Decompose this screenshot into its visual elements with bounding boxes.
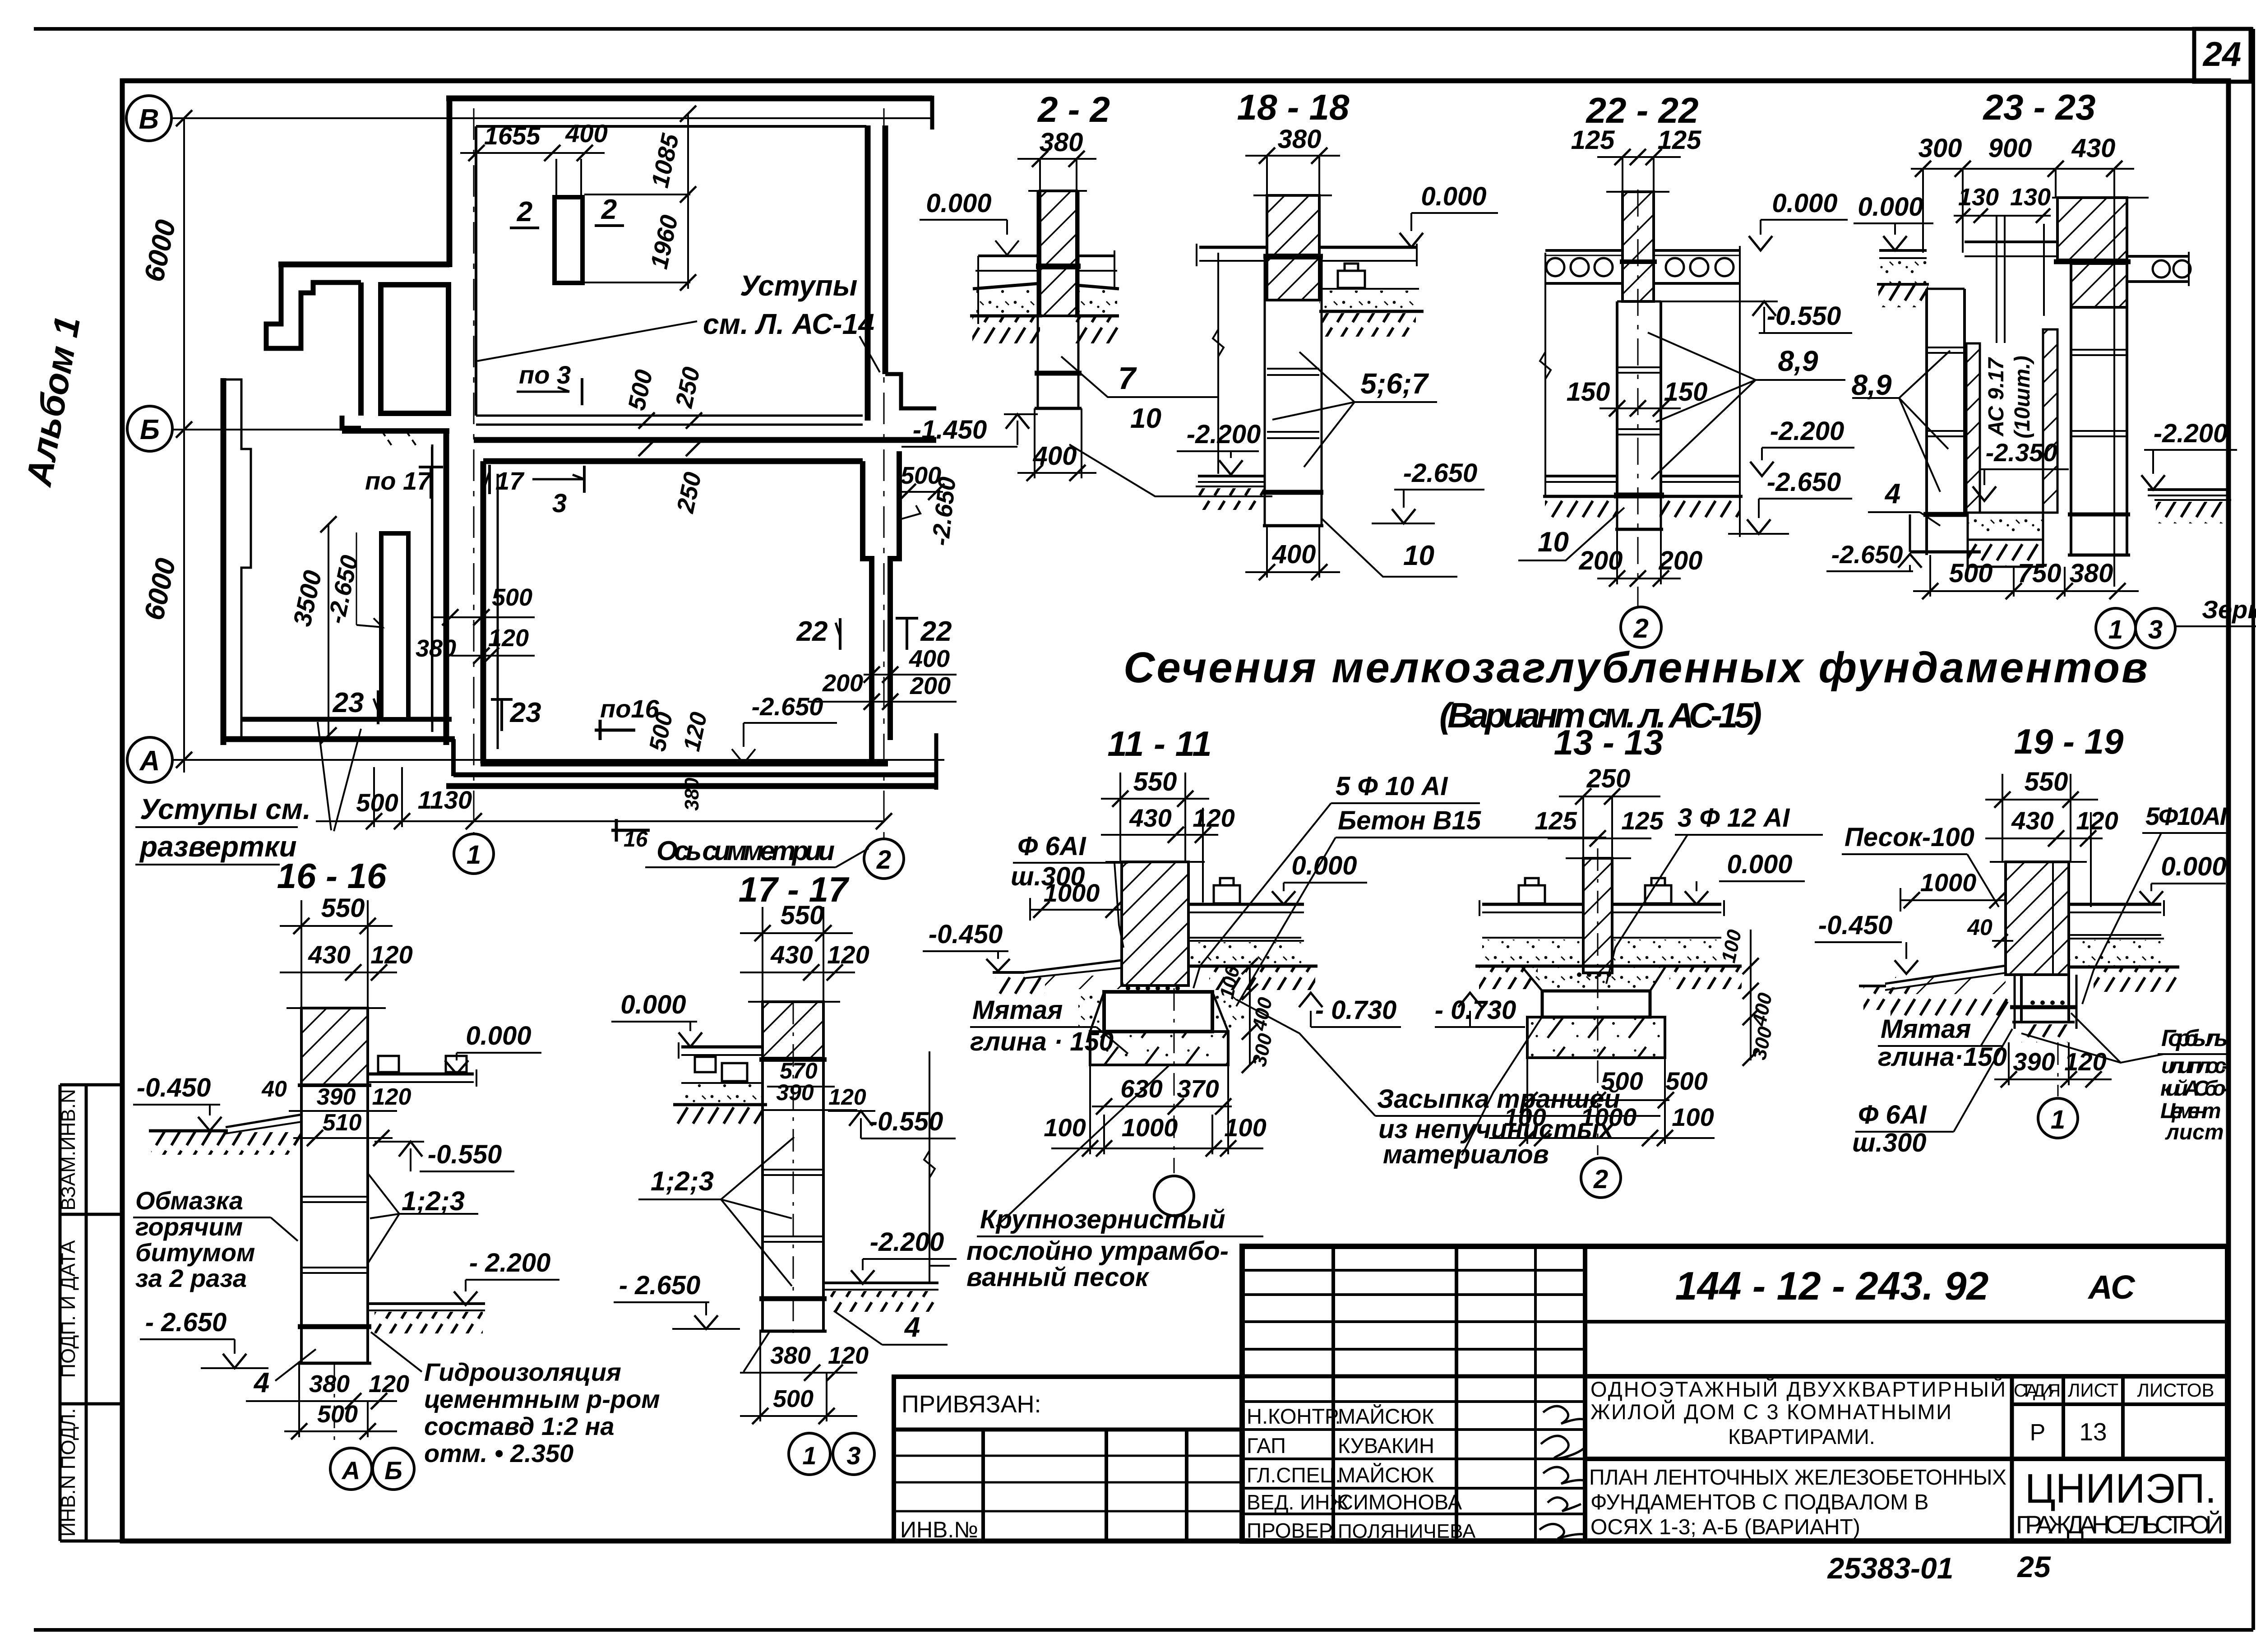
wall hatched bbox=[2006, 862, 2069, 975]
svg-text:400: 400 bbox=[565, 119, 607, 148]
svg-text:500: 500 bbox=[1601, 1067, 1643, 1095]
svg-text:380: 380 bbox=[681, 777, 703, 811]
dim ticks on left dim line bbox=[176, 110, 192, 126]
svg-text:Альбом 1: Альбом 1 bbox=[18, 313, 88, 490]
svg-text:или плос-: или плос- bbox=[2161, 1054, 2229, 1078]
sand pad bbox=[1090, 1032, 1228, 1065]
svg-text:материалов: материалов bbox=[1383, 1140, 1549, 1169]
ground line bbox=[970, 315, 1042, 318]
plan left wing bottom wall bbox=[242, 717, 452, 722]
svg-text:380: 380 bbox=[770, 1342, 811, 1369]
axis А horizontal line bbox=[172, 759, 944, 761]
svg-text:2: 2 bbox=[517, 196, 532, 227]
svg-text:100: 100 bbox=[1044, 1113, 1086, 1142]
title block label row lines bbox=[1242, 1400, 1585, 1403]
svg-text:7: 7 bbox=[1118, 361, 1137, 396]
svg-text:250: 250 bbox=[671, 470, 707, 516]
svg-text:250: 250 bbox=[1586, 764, 1631, 793]
svg-text:- 2.650: - 2.650 bbox=[619, 1271, 701, 1300]
svg-text:19 - 19: 19 - 19 bbox=[2014, 722, 2124, 761]
svg-text:400: 400 bbox=[909, 645, 950, 672]
right floor slab bbox=[1077, 255, 1114, 257]
svg-text:200: 200 bbox=[910, 672, 951, 699]
svg-text:глина · 150: глина · 150 bbox=[970, 1027, 1114, 1056]
svg-text:120: 120 bbox=[828, 1342, 869, 1369]
svg-text:25: 25 bbox=[2016, 1550, 2051, 1583]
svg-text:390: 390 bbox=[317, 1084, 356, 1110]
svg-text:16: 16 bbox=[624, 828, 648, 851]
svg-text:ЖИЛОЙ ДОМ С 3 КОМНАТНЫМИ: ЖИЛОЙ ДОМ С 3 КОМНАТНЫМИ bbox=[1590, 1400, 1951, 1424]
svg-text:0.000: 0.000 bbox=[1291, 851, 1357, 880]
left slab bbox=[681, 1046, 763, 1049]
axis circles А Б bbox=[330, 1448, 372, 1490]
svg-text:ЛИСТОВ: ЛИСТОВ bbox=[2137, 1379, 2214, 1401]
svg-text:-2.200: -2.200 bbox=[2154, 419, 2228, 448]
svg-text:380: 380 bbox=[416, 635, 456, 662]
left ramp slanted bbox=[1885, 966, 2006, 984]
svg-text:22: 22 bbox=[796, 616, 828, 647]
svg-text:-2.650: -2.650 bbox=[1403, 458, 1477, 488]
bottom axis circle 1 bbox=[454, 834, 494, 874]
svg-text:-2.650: -2.650 bbox=[1831, 540, 1903, 569]
svg-text:200: 200 bbox=[822, 670, 863, 697]
svg-text:-0.550: -0.550 bbox=[1767, 301, 1841, 331]
svg-text:250: 250 bbox=[670, 365, 705, 411]
svg-text:25383-01: 25383-01 bbox=[1827, 1551, 1954, 1585]
svg-text:0.000: 0.000 bbox=[1772, 189, 1837, 218]
svg-text:500: 500 bbox=[773, 1385, 814, 1412]
svg-text:СИМОНОВА: СИМОНОВА bbox=[1338, 1490, 1462, 1514]
left foundation column bbox=[1925, 289, 1928, 555]
thin wall hatched bbox=[1623, 192, 1654, 301]
axis circle А bbox=[127, 737, 172, 782]
svg-text:Ось симметрии: Ось симметрии bbox=[656, 836, 835, 866]
svg-text:2: 2 bbox=[1593, 1165, 1608, 1194]
footing block bbox=[1104, 992, 1212, 1032]
svg-text:4: 4 bbox=[904, 1312, 920, 1343]
svg-text:МАЙСЮК: МАЙСЮК bbox=[1338, 1463, 1434, 1487]
svg-text:1: 1 bbox=[467, 840, 481, 870]
leader 7 bbox=[1061, 356, 1218, 397]
mark 16 bottom bbox=[611, 829, 650, 832]
leaders 5;6;7 bbox=[1299, 352, 1355, 467]
svg-text:составд 1:2 на: составд 1:2 на bbox=[424, 1412, 615, 1440]
ground line left bbox=[149, 1129, 228, 1133]
svg-text:- 0.730: - 0.730 bbox=[1315, 995, 1397, 1025]
svg-text:22: 22 bbox=[920, 616, 952, 647]
svg-text:Б: Б bbox=[384, 1456, 402, 1485]
svg-text:0.000: 0.000 bbox=[1858, 192, 1923, 222]
svg-text:Р: Р bbox=[2030, 1420, 2046, 1446]
svg-text:- 2.200: - 2.200 bbox=[469, 1248, 551, 1277]
bottom dim line bbox=[316, 820, 884, 822]
svg-text:Бетон В15: Бетон В15 bbox=[1338, 806, 1481, 835]
svg-text:400: 400 bbox=[1272, 540, 1316, 569]
svg-text:390: 390 bbox=[776, 1080, 814, 1105]
plan bottom outer wall bbox=[453, 773, 936, 777]
svg-text:битумом: битумом bbox=[135, 1238, 255, 1267]
plan axis 2 wall jog bbox=[885, 374, 936, 408]
svg-text:130: 130 bbox=[2010, 184, 2051, 211]
svg-text:300: 300 bbox=[1248, 1031, 1276, 1069]
right vertical dim bbox=[929, 1051, 930, 1282]
wall hatched bbox=[763, 1002, 823, 1058]
svg-text:Ф 6АI: Ф 6АI bbox=[1017, 832, 1087, 861]
svg-text:4: 4 bbox=[1884, 478, 1900, 509]
svg-text:4: 4 bbox=[253, 1367, 269, 1398]
svg-text:ГЛ.СПЕЦ.: ГЛ.СПЕЦ. bbox=[1247, 1463, 1341, 1487]
svg-text:ПРОВЕР.: ПРОВЕР. bbox=[1247, 1519, 1335, 1542]
svg-text:1000: 1000 bbox=[1044, 879, 1100, 907]
slab left with circles bbox=[1545, 249, 1623, 252]
plan axis Б wall main segment bbox=[474, 437, 936, 443]
svg-text:380: 380 bbox=[1278, 125, 1322, 154]
foundation blocks below ground bbox=[1037, 191, 1039, 408]
svg-text:430: 430 bbox=[2011, 806, 2053, 835]
svg-text:ЛИСТ: ЛИСТ bbox=[2068, 1379, 2118, 1401]
svg-text:ПЛАН ЛЕНТОЧНЫХ ЖЕЛЕЗОБЕТОННЫХ: ПЛАН ЛЕНТОЧНЫХ ЖЕЛЕЗОБЕТОННЫХ bbox=[1589, 1466, 2006, 1490]
svg-text:2: 2 bbox=[876, 845, 891, 875]
svg-text:6000: 6000 bbox=[139, 555, 182, 623]
svg-text:18 - 18: 18 - 18 bbox=[1237, 87, 1350, 127]
plan door opening dashes bbox=[382, 431, 393, 448]
plan storeroom rectangle bbox=[381, 285, 448, 413]
page top border line bbox=[34, 27, 2253, 31]
right wall hatched bbox=[2057, 198, 2127, 260]
svg-text:8,9: 8,9 bbox=[1778, 345, 1818, 377]
svg-text:ванный песок: ванный песок bbox=[966, 1263, 1150, 1292]
plan axis 2 pier (500 wide) bbox=[863, 461, 872, 766]
svg-text:-0.550: -0.550 bbox=[869, 1107, 943, 1136]
svg-text:200: 200 bbox=[1579, 546, 1623, 575]
right ground slab bbox=[2148, 488, 2229, 491]
left slab bbox=[1879, 249, 1927, 252]
svg-text:125: 125 bbox=[1658, 125, 1702, 155]
svg-text:по 3: по 3 bbox=[519, 361, 571, 389]
stadia list columns bbox=[2010, 1376, 2014, 1541]
svg-text:10: 10 bbox=[1130, 403, 1161, 434]
svg-text:0.000: 0.000 bbox=[620, 990, 686, 1019]
svg-text:-1.450: -1.450 bbox=[913, 415, 987, 444]
svg-text:3500: 3500 bbox=[287, 568, 327, 629]
svg-text:120: 120 bbox=[2076, 806, 2118, 835]
svg-text:ВЗАМ.ИНВ.N: ВЗАМ.ИНВ.N bbox=[57, 1089, 79, 1210]
svg-text:120: 120 bbox=[827, 940, 869, 969]
centerline + node circle 2 bbox=[1597, 848, 1599, 1155]
svg-text:120: 120 bbox=[369, 1370, 409, 1397]
wall column hatched lower bbox=[1040, 268, 1077, 316]
svg-text:АС: АС bbox=[2087, 1268, 2136, 1306]
svg-text:120: 120 bbox=[488, 625, 529, 652]
svg-text:120: 120 bbox=[679, 710, 712, 754]
left ramp bbox=[1023, 960, 1122, 972]
svg-text:Мятая: Мятая bbox=[972, 995, 1063, 1025]
middle slab between walls bbox=[1965, 241, 2057, 243]
svg-text:24: 24 bbox=[2202, 35, 2242, 74]
svg-text:500: 500 bbox=[492, 584, 532, 611]
svg-text:23 - 23: 23 - 23 bbox=[1982, 87, 2095, 127]
ramp left bbox=[226, 1115, 301, 1127]
svg-text:СТАДИЯ: СТАДИЯ bbox=[2014, 1381, 2061, 1401]
svg-text:ш.300: ш.300 bbox=[1852, 1128, 1926, 1157]
svg-text:390: 390 bbox=[2013, 1047, 2055, 1076]
svg-text:40: 40 bbox=[261, 1076, 287, 1101]
svg-text:630: 630 bbox=[1120, 1074, 1162, 1103]
svg-text:6000: 6000 bbox=[139, 217, 182, 284]
svg-text:500: 500 bbox=[1949, 559, 1993, 588]
svg-text:Мятая: Мятая bbox=[1881, 1014, 1971, 1044]
svg-text:120: 120 bbox=[1193, 804, 1234, 832]
svg-text:120: 120 bbox=[370, 940, 412, 969]
svg-text:- 2.650: - 2.650 bbox=[145, 1308, 227, 1337]
svg-text:-0.450: -0.450 bbox=[137, 1073, 211, 1102]
plan bottom-right wall end tick bbox=[934, 733, 938, 790]
title block signature grid verticals bbox=[1331, 1246, 1335, 1541]
foundation column below bbox=[1616, 301, 1618, 495]
plan porch top wall bbox=[278, 262, 449, 268]
svg-text:144 - 12 - 243. 92: 144 - 12 - 243. 92 bbox=[1675, 1263, 1989, 1308]
svg-text:3: 3 bbox=[552, 489, 567, 518]
left slab lines bbox=[1199, 246, 1267, 249]
svg-text:Крупнозернистый: Крупнозернистый bbox=[980, 1205, 1225, 1234]
left long dim line bbox=[1544, 253, 1546, 496]
centerline bbox=[1637, 190, 1639, 607]
svg-text:125: 125 bbox=[1621, 806, 1664, 835]
svg-text:550: 550 bbox=[2025, 767, 2068, 796]
left footing bottom bbox=[1909, 514, 1911, 552]
svg-text:послойно утрамбо-: послойно утрамбо- bbox=[966, 1236, 1229, 1266]
ground line and hatch bbox=[1543, 495, 1620, 498]
svg-text:2: 2 bbox=[1633, 613, 1648, 643]
svg-text:ПОДП. И ДАТА: ПОДП. И ДАТА bbox=[57, 1240, 79, 1378]
svg-text:900: 900 bbox=[1988, 134, 2032, 163]
signature scribbles bbox=[1539, 1406, 1586, 1539]
plan top-right wall end tick bbox=[930, 96, 934, 130]
svg-text:13: 13 bbox=[2079, 1418, 2107, 1446]
wall hatched bbox=[301, 1008, 368, 1085]
svg-text:-2.200: -2.200 bbox=[870, 1227, 944, 1257]
svg-text:Уступы см.: Уступы см. bbox=[140, 793, 311, 825]
svg-text:цементным р-ром: цементным р-ром bbox=[424, 1385, 660, 1413]
basement slab both sides bbox=[1545, 475, 1617, 477]
svg-text:300: 300 bbox=[1919, 134, 1962, 163]
svg-text:0.000: 0.000 bbox=[2161, 852, 2226, 881]
centerline + node circle 1 bbox=[2057, 1042, 2059, 1097]
leader lines for Уступы bbox=[477, 321, 697, 361]
plan left wall upper (axis 1) bbox=[447, 96, 453, 267]
svg-text:100: 100 bbox=[1717, 927, 1746, 965]
svg-text:5;6;7: 5;6;7 bbox=[1360, 367, 1429, 400]
dim line 1655-400 top bbox=[460, 152, 605, 154]
svg-text:2: 2 bbox=[601, 194, 617, 225]
svg-text:100: 100 bbox=[1224, 1113, 1266, 1142]
wall hatched column bbox=[1122, 862, 1188, 986]
svg-text:550: 550 bbox=[321, 893, 365, 923]
svg-text:1000: 1000 bbox=[1122, 1113, 1178, 1142]
wall column hatched upper bbox=[1040, 191, 1077, 265]
leader from bottom course to гидроизоляция bbox=[744, 1332, 769, 1372]
svg-text:ИНВ.N ПОДЛ.: ИНВ.N ПОДЛ. bbox=[57, 1408, 79, 1537]
right slab with circles bbox=[2127, 255, 2189, 258]
svg-text:3 Ф 12 АI: 3 Ф 12 АI bbox=[1678, 803, 1790, 833]
basement slab left bbox=[1198, 475, 1265, 477]
svg-text:кий АСбо-: кий АСбо- bbox=[2160, 1077, 2228, 1101]
svg-text:Б: Б bbox=[140, 414, 160, 445]
right slab bbox=[1319, 246, 1417, 249]
leaders to plan bbox=[318, 722, 331, 830]
svg-text:380: 380 bbox=[2070, 559, 2113, 588]
dim 3500 rotated left wing bbox=[328, 524, 329, 736]
svg-text:430: 430 bbox=[1129, 804, 1171, 832]
svg-text:1000: 1000 bbox=[1920, 868, 1977, 897]
svg-text:2 - 2: 2 - 2 bbox=[1037, 89, 1110, 130]
plan lower-right room bottom wall bbox=[481, 761, 888, 767]
svg-text:200: 200 bbox=[1659, 546, 1703, 575]
svg-text:500: 500 bbox=[317, 1401, 358, 1428]
leader 10 bbox=[1321, 518, 1457, 577]
svg-text:1130: 1130 bbox=[418, 786, 472, 814]
privyazan outer box bbox=[894, 1377, 1242, 1541]
svg-text:лист: лист bbox=[2165, 1120, 2224, 1144]
bottom axis circle 2 bbox=[864, 839, 904, 879]
right floor slab bbox=[1188, 903, 1304, 906]
svg-text:ПОЛЯНИЧЕВА: ПОЛЯНИЧЕВА bbox=[1338, 1520, 1476, 1542]
svg-text:В: В bbox=[139, 104, 159, 135]
svg-text:23: 23 bbox=[333, 687, 364, 718]
svg-text:10: 10 bbox=[1403, 540, 1434, 571]
svg-text:Зерк.: Зерк. bbox=[2202, 595, 2256, 624]
svg-text:17: 17 bbox=[495, 467, 525, 495]
footing trapezoid with dots bbox=[1521, 966, 1666, 991]
thick footing joint bbox=[1614, 493, 1664, 499]
svg-text:-2.650: -2.650 bbox=[752, 692, 823, 721]
plan porch stepped outline bbox=[266, 267, 361, 348]
left margin strip lines bbox=[59, 1085, 62, 1541]
svg-text:125: 125 bbox=[1571, 125, 1615, 155]
plan axis centerline 1 bbox=[382, 108, 884, 839]
right floor slab bbox=[2069, 903, 2161, 906]
svg-text:430: 430 bbox=[308, 940, 350, 969]
svg-text:150: 150 bbox=[1567, 377, 1610, 407]
svg-text:750: 750 bbox=[2018, 559, 2062, 588]
svg-text:5 Ф 10 АI: 5 Ф 10 АI bbox=[1336, 772, 1448, 801]
svg-text:ВЕД. ИНЖ: ВЕД. ИНЖ bbox=[1247, 1490, 1349, 1514]
level -1.450 up arrow bbox=[1017, 421, 1018, 445]
svg-text:Обмазка: Обмазка bbox=[135, 1186, 243, 1215]
leader 10 bbox=[1518, 508, 1624, 560]
svg-text:-0.450: -0.450 bbox=[929, 920, 1003, 949]
svg-text:22 - 22: 22 - 22 bbox=[1585, 90, 1698, 130]
svg-text:300: 300 bbox=[1748, 1024, 1776, 1062]
svg-text:100: 100 bbox=[1672, 1103, 1714, 1131]
svg-text:(10шт.): (10шт.) bbox=[2011, 356, 2034, 438]
axis В horizontal line bbox=[171, 117, 932, 119]
svg-text:0.000: 0.000 bbox=[466, 1021, 531, 1050]
svg-text:500: 500 bbox=[1665, 1067, 1707, 1095]
plan top wall bbox=[446, 96, 932, 102]
svg-text:430: 430 bbox=[770, 940, 813, 969]
svg-text:-2.650: -2.650 bbox=[1767, 467, 1841, 497]
svg-text:1000: 1000 bbox=[1581, 1103, 1637, 1131]
svg-text:ГРАЖДАНСЕЛЬСТРОЙ: ГРАЖДАНСЕЛЬСТРОЙ bbox=[2016, 1510, 2224, 1539]
plan left wing east wall (to axis 1) bbox=[444, 428, 449, 745]
svg-text:40: 40 bbox=[1967, 915, 1992, 940]
left floor slab bbox=[978, 255, 1040, 257]
axis circle Б bbox=[127, 406, 172, 451]
plan chimney pier upper room bbox=[555, 197, 582, 283]
plan pier in left wing bbox=[381, 533, 408, 719]
leader to backfill bbox=[1462, 1015, 1543, 1155]
mark 3 with arrow bbox=[532, 478, 584, 481]
svg-text:23: 23 bbox=[510, 697, 541, 728]
rebar dots bbox=[1577, 972, 1611, 977]
slab right with circles bbox=[1654, 249, 1741, 252]
svg-text:КУВАКИН: КУВАКИН bbox=[1338, 1434, 1434, 1458]
svg-text:1655: 1655 bbox=[484, 121, 541, 150]
svg-text:100: 100 bbox=[1504, 1103, 1546, 1131]
left vertical dim with break bbox=[1217, 253, 1219, 474]
svg-text:0.000: 0.000 bbox=[1421, 182, 1486, 211]
svg-text:5Ф10АI: 5Ф10АI bbox=[2145, 802, 2227, 830]
svg-text:АС 9.17: АС 9.17 bbox=[1984, 357, 2008, 437]
svg-text:горячим: горячим bbox=[135, 1212, 243, 1241]
svg-text:0.000: 0.000 bbox=[926, 189, 991, 218]
axis circle 2 bbox=[1621, 607, 1661, 648]
trench backfill dots left/right of footing bbox=[1078, 991, 1104, 1031]
sheet number box 24 bbox=[2194, 29, 2251, 82]
title block upper row lines bbox=[1242, 1269, 1585, 1272]
thick joint at floor bbox=[1036, 264, 1081, 269]
svg-text:ОДНОЭТАЖНЫЙ ДВУХКВАРТИРНЫЙ: ОДНОЭТАЖНЫЙ ДВУХКВАРТИРНЫЙ bbox=[1590, 1377, 2006, 1401]
svg-text:-2.200: -2.200 bbox=[1187, 420, 1261, 449]
basement slab right bbox=[368, 1302, 485, 1305]
svg-text:1960: 1960 bbox=[646, 213, 684, 271]
plan axis 2 wall upper segment bbox=[865, 125, 871, 421]
svg-text:120: 120 bbox=[372, 1084, 411, 1110]
doc number cell divider bbox=[1585, 1320, 2228, 1323]
svg-text:125: 125 bbox=[1535, 806, 1577, 835]
svg-text:Песок-100: Песок-100 bbox=[1845, 823, 1974, 852]
page bottom border line bbox=[34, 1628, 2253, 1632]
svg-text:380: 380 bbox=[309, 1370, 350, 1397]
block on slab bbox=[1338, 271, 1365, 288]
centerline bbox=[793, 1002, 794, 1340]
svg-text:550: 550 bbox=[781, 901, 824, 930]
svg-text:8,9: 8,9 bbox=[1852, 369, 1892, 401]
svg-text:А: А bbox=[139, 745, 160, 777]
svg-text:1: 1 bbox=[802, 1441, 816, 1470]
svg-text:13 - 13: 13 - 13 bbox=[1554, 722, 1664, 762]
svg-text:500: 500 bbox=[623, 367, 658, 413]
axis circle В bbox=[126, 96, 171, 141]
foundation column bbox=[761, 1058, 764, 1331]
svg-text:Сечения мелкозаглубленных фу: Сечения мелкозаглубленных фундаментов bbox=[1123, 643, 2148, 692]
vertical dim 100 400 300 bbox=[1249, 966, 1251, 1065]
svg-text:-0.450: -0.450 bbox=[1818, 911, 1892, 940]
leader 10 bbox=[1069, 444, 1272, 496]
svg-text:ФУНДАМЕНТОВ С ПОДВАЛОМ В: ФУНДАМЕНТОВ С ПОДВАЛОМ В bbox=[1590, 1490, 1928, 1514]
svg-text:500: 500 bbox=[356, 788, 398, 817]
floor slabs both sides bbox=[1482, 903, 1583, 906]
foundation column bbox=[1264, 255, 1266, 526]
svg-text:Уступы: Уступы bbox=[740, 269, 857, 302]
leaders 8,9 bbox=[1648, 333, 1756, 479]
svg-text:Горбыль: Горбыль bbox=[2161, 1025, 2228, 1051]
svg-text:Гидроизоляция: Гидроизоляция bbox=[424, 1358, 621, 1386]
plan lower-right room left wall bbox=[481, 461, 486, 764]
svg-text:1: 1 bbox=[2108, 615, 2123, 644]
bottom of channel sand bbox=[1968, 513, 2043, 540]
